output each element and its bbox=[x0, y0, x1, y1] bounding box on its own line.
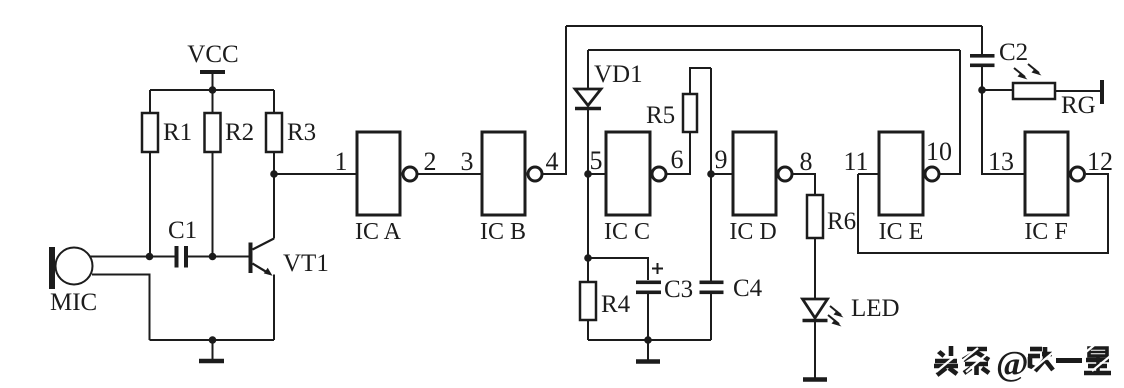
capacitor C3 bbox=[636, 263, 693, 340]
resistor R1 bbox=[142, 90, 192, 257]
svg-text:C4: C4 bbox=[733, 275, 763, 302]
svg-text:6: 6 bbox=[671, 145, 684, 174]
svg-text:IC A: IC A bbox=[355, 219, 402, 245]
wire C1 to VT1 base bbox=[188, 256, 249, 258]
inverter IC A bbox=[355, 132, 417, 245]
svg-text:MIC: MIC bbox=[50, 289, 97, 316]
svg-text:2: 2 bbox=[424, 147, 437, 176]
wire IC B out up to top rail bbox=[543, 26, 566, 174]
inverter IC E bbox=[879, 132, 939, 245]
svg-text:10: 10 bbox=[926, 137, 952, 166]
ground (center) bbox=[636, 340, 660, 362]
wire IC A out to IC B in bbox=[418, 173, 482, 175]
svg-text:R5: R5 bbox=[646, 102, 675, 129]
svg-text:8: 8 bbox=[800, 147, 813, 176]
svg-text:@: @ bbox=[996, 344, 1029, 383]
ground (LED) bbox=[803, 377, 827, 382]
VCC symbol bbox=[187, 41, 238, 90]
svg-text:IC B: IC B bbox=[480, 219, 526, 245]
diode VD1 bbox=[575, 50, 643, 258]
svg-text:11: 11 bbox=[843, 147, 868, 176]
svg-text:R4: R4 bbox=[601, 291, 631, 318]
node C2/RG/pin13 junction bbox=[978, 86, 986, 94]
watermark white cuts bbox=[932, 342, 1114, 372]
resistor R5 bbox=[646, 68, 711, 132]
wire IC E out, pin 10, up to second rail bbox=[940, 50, 960, 174]
svg-text:R3: R3 bbox=[287, 119, 316, 146]
wire bottom rail R4 to C4 bbox=[588, 339, 711, 341]
wire IC C out up to R5 bbox=[667, 132, 690, 174]
svg-text:RG: RG bbox=[1061, 92, 1096, 119]
wire feedback to IC E input, pin 11 bbox=[858, 173, 879, 175]
wire IC F out, pin 12, feedback loop to pin 11 bbox=[858, 174, 1108, 253]
node R2/C1 junction bbox=[209, 253, 217, 261]
wire MIC bottom down to ground rail bbox=[92, 275, 150, 341]
inverter IC F bbox=[1024, 132, 1084, 245]
wire top rail to C2 bbox=[566, 25, 982, 27]
svg-text:12: 12 bbox=[1087, 147, 1113, 176]
wire IC D out, pin 8, down to R6 bbox=[793, 174, 815, 195]
svg-text:IC F: IC F bbox=[1024, 219, 1067, 245]
wire node to C3 bbox=[588, 258, 648, 280]
svg-text:IC D: IC D bbox=[729, 219, 776, 245]
watermark 头条 @张一星 bbox=[932, 342, 1114, 383]
resistor R3 bbox=[266, 90, 316, 174]
wire to IC C input, pin 5 bbox=[588, 173, 606, 175]
LED bbox=[803, 295, 900, 378]
wire R5 loop down through pin 9 to C4 bbox=[710, 68, 712, 281]
resistor R6 bbox=[807, 195, 856, 298]
wire MIC top to C1 bbox=[91, 256, 176, 258]
node pin9/C4 junction bbox=[707, 170, 715, 178]
svg-text:VD1: VD1 bbox=[594, 61, 643, 88]
svg-text:C2: C2 bbox=[999, 39, 1028, 66]
inverter IC D bbox=[729, 132, 792, 245]
svg-text:3: 3 bbox=[461, 147, 474, 176]
inverter IC C bbox=[604, 132, 666, 245]
svg-text:1: 1 bbox=[335, 147, 348, 176]
capacitor C1 bbox=[168, 217, 197, 268]
capacitor C2 bbox=[970, 26, 1028, 90]
node VCC rail junction bbox=[209, 86, 217, 94]
wire node to IC A input, pin 1 bbox=[274, 173, 357, 175]
svg-text:VT1: VT1 bbox=[283, 250, 329, 277]
svg-text:4: 4 bbox=[546, 147, 559, 176]
wire C2 node down to IC F input, pin 13 bbox=[982, 90, 1025, 174]
svg-text:9: 9 bbox=[715, 145, 728, 174]
photoresistor RG bbox=[982, 64, 1104, 119]
node R4/C3 junction bbox=[584, 254, 592, 262]
wire bottom ground rail bbox=[150, 339, 275, 341]
svg-text:R2: R2 bbox=[225, 119, 254, 146]
resistor R4 bbox=[580, 282, 631, 340]
svg-text:LED: LED bbox=[851, 295, 900, 322]
svg-text:IC C: IC C bbox=[604, 219, 650, 245]
microphone MIC bbox=[49, 247, 97, 316]
transistor VT1 bbox=[249, 174, 329, 340]
svg-text:C1: C1 bbox=[168, 217, 197, 244]
wire VCC rail bbox=[150, 89, 274, 91]
capacitor C4 bbox=[700, 275, 763, 340]
node C3/ground junction bbox=[644, 336, 652, 344]
inverter IC B bbox=[480, 132, 542, 245]
ground (left) bbox=[199, 340, 224, 361]
wire second rail from VD1 to IC E output bbox=[588, 49, 960, 51]
svg-text:13: 13 bbox=[988, 147, 1014, 176]
node ground rail junction bbox=[209, 336, 217, 344]
svg-text:IC E: IC E bbox=[879, 219, 924, 245]
svg-text:R6: R6 bbox=[827, 208, 856, 235]
node VD1/pin5 junction bbox=[584, 170, 592, 178]
svg-text:5: 5 bbox=[590, 146, 603, 175]
node R3/collector junction bbox=[270, 170, 278, 178]
svg-text:VCC: VCC bbox=[187, 41, 238, 68]
svg-text:R1: R1 bbox=[163, 119, 192, 146]
wire to IC D input, pin 9 bbox=[711, 173, 733, 175]
node R1/MIC junction bbox=[146, 253, 154, 261]
svg-text:C3: C3 bbox=[664, 276, 693, 303]
resistor R2 bbox=[205, 90, 255, 257]
